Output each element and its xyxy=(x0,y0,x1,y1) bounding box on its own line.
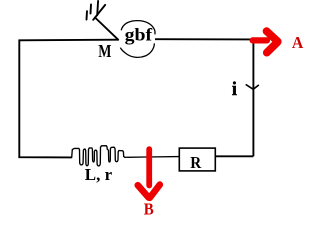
svg-text:A: A xyxy=(292,33,304,52)
svg-text:R: R xyxy=(190,153,202,172)
red arrow A tail xyxy=(253,37,267,43)
wire resistor to bottom-right corner xyxy=(215,155,253,157)
switch support vertical stroke xyxy=(96,1,99,15)
switch support diagonal xyxy=(93,5,105,20)
wire top-right xyxy=(155,38,253,40)
wire top-left + left side + bottom-left xyxy=(19,40,118,158)
generator gbf circle bottom arc xyxy=(120,43,154,57)
svg-text:i: i xyxy=(232,79,237,100)
resistor R box xyxy=(179,148,215,171)
generator gbf circle top arc xyxy=(121,21,155,35)
switch blade at node M xyxy=(95,18,118,40)
svg-text:gbf: gbf xyxy=(125,24,154,44)
red arrow A head lower stroke xyxy=(267,42,278,52)
svg-text:M: M xyxy=(98,41,111,61)
red arrow B head right stroke xyxy=(150,185,160,198)
svg-text:B: B xyxy=(144,200,154,219)
inductor L1 coil xyxy=(72,146,180,166)
svg-text:L, r: L, r xyxy=(85,165,113,184)
current direction chevron on right wire xyxy=(246,85,258,90)
red arrow B head left stroke xyxy=(138,185,149,197)
wire right side vertical xyxy=(252,39,254,156)
red arrow B tail xyxy=(146,149,152,185)
red arrow A head upper stroke xyxy=(267,31,278,41)
hatch stroke 1 xyxy=(90,4,93,13)
hatch stroke 2 xyxy=(86,11,89,19)
